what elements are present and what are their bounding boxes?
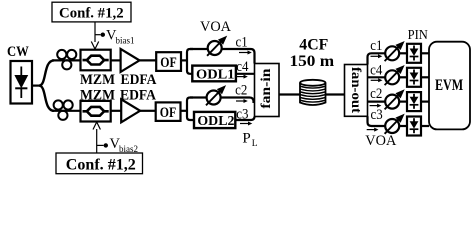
arrow c4 right [371, 78, 383, 82]
arrow c3 left [240, 122, 252, 126]
svg-text:EDFA: EDFA [120, 87, 156, 103]
svg-text:OF: OF [160, 55, 177, 71]
svg-text:EVM: EVM [435, 77, 463, 94]
arrow c2 left [236, 99, 248, 103]
svg-text:c2: c2 [370, 86, 382, 102]
svg-text:Conf. #1,2: Conf. #1,2 [66, 156, 136, 173]
svg-text:MZM: MZM [80, 87, 115, 103]
svg-text:fan-out: fan-out [348, 67, 363, 113]
amplifier EDFA top [121, 49, 140, 72]
svg-text:bias1: bias1 [116, 36, 135, 46]
wire fan-out to VOA c4 right [368, 76, 386, 78]
controller Conf box top [52, 2, 131, 22]
filter OF top [156, 52, 181, 71]
arrow c1 left [239, 51, 252, 55]
bias line V_bias2 [93, 122, 108, 153]
splitter brace bottom arm [39, 86, 54, 111]
wire VOA to fan-in c1 [222, 49, 255, 64]
attenuator VOA c2-left [206, 86, 225, 105]
wire CW to splitter [32, 84, 39, 86]
wire ODL1 to fan-in c4 [236, 73, 255, 75]
svg-text:PIN: PIN [408, 28, 428, 43]
photodiode PIN c3 [407, 117, 421, 136]
svg-text:c1: c1 [370, 38, 382, 54]
wire MZM to EDFA bottom [111, 110, 122, 112]
delay ODL1 [192, 66, 236, 83]
controller Conf box bottom [56, 153, 143, 174]
wire EDFA to OF bottom [140, 110, 156, 112]
svg-text:ODL2: ODL2 [197, 114, 234, 129]
attenuator VOA c1 right [385, 42, 404, 61]
photodiode PIN c4 [407, 68, 421, 87]
svg-text:bias2: bias2 [119, 144, 138, 154]
svg-text:OF: OF [160, 105, 177, 121]
arrow c3 right [367, 128, 379, 132]
wire PIN to EVM c4 [421, 76, 429, 78]
wire VOA to PIN c4 [399, 76, 407, 78]
wire VOA to PIN c3 [399, 125, 407, 127]
attenuator VOA c4 right [385, 66, 404, 85]
wire VOA to PIN c1 [399, 52, 407, 54]
svg-text:VOA: VOA [200, 19, 232, 35]
label P_L [242, 131, 257, 149]
svg-text:VOA: VOA [365, 133, 397, 149]
svg-text:c4: c4 [236, 59, 249, 75]
wire ODL2 to fan-in c3 [235, 117, 254, 121]
analyzer EVM box [429, 42, 470, 130]
svg-text:4CF: 4CF [299, 36, 328, 53]
wire PIN to EVM c1 [421, 52, 429, 54]
photodiode PIN c2 [407, 92, 421, 111]
svg-text:c3: c3 [371, 107, 383, 123]
wire fan-out to VOA c2 right [368, 100, 386, 102]
wire VOA to fan-in c2 [221, 98, 254, 104]
split bottom branch [187, 98, 194, 121]
photodiode PIN c1 [407, 44, 421, 63]
svg-text:c2: c2 [235, 82, 247, 98]
split top branch [187, 49, 193, 74]
label V_bias2 [110, 136, 139, 154]
svg-text:fan-in: fan-in [259, 68, 274, 108]
fan-out box [345, 65, 368, 117]
wire OF to split top [181, 59, 187, 61]
wire fan-in to spool [279, 93, 300, 95]
svg-text:150 m: 150 m [290, 53, 335, 70]
attenuator VOA c2 right [385, 90, 404, 109]
label V_bias1 [106, 28, 135, 46]
svg-text:ODL1: ODL1 [196, 68, 235, 83]
svg-text:EDFA: EDFA [121, 72, 157, 88]
wire OF to split bottom [181, 110, 188, 112]
svg-text:c3: c3 [236, 107, 248, 123]
arrow c1 right [371, 54, 383, 58]
svg-text:CW: CW [7, 44, 29, 60]
attenuator VOA c3 right [385, 115, 404, 134]
wire fan-out to VOA c3 right [368, 116, 386, 126]
wire MZM to EDFA top [111, 59, 121, 61]
wire spool to fan-out [326, 93, 345, 95]
wire split to VOA c2 [190, 96, 207, 98]
svg-text:c4: c4 [370, 62, 383, 78]
wire PIN to EVM c2 [421, 100, 429, 102]
wire bottom branch to MZM [52, 110, 81, 112]
wire top branch to MZM [52, 59, 81, 61]
fiber spool 4CF [300, 80, 326, 105]
svg-text:MZM: MZM [80, 72, 115, 88]
arrow c2 right [370, 104, 382, 108]
modulator MZM bottom box [81, 101, 111, 122]
arrow c4 left [237, 75, 248, 79]
modulator MZM top box [81, 50, 111, 71]
wire fan-out to VOA c1 right [368, 53, 386, 64]
splitter brace top arm [39, 60, 54, 85]
polarization controller top [57, 50, 76, 70]
laser CW box [11, 61, 33, 104]
amplifier EDFA bottom [121, 99, 140, 122]
svg-text:L: L [252, 139, 258, 149]
svg-text:c1: c1 [236, 34, 248, 50]
bias line V_bias1 [91, 22, 105, 49]
wire VOA to PIN c2 [399, 100, 407, 102]
wire split to VOA c1 [190, 48, 208, 50]
attenuator VOA c1-left [207, 37, 226, 56]
polarization controller bottom [54, 100, 73, 120]
svg-text:P: P [242, 131, 250, 147]
wire EDFA to OF top [140, 59, 157, 61]
filter OF bottom [156, 102, 181, 121]
fan-in box [255, 64, 280, 117]
svg-text:Conf. #1,2: Conf. #1,2 [59, 6, 124, 22]
delay ODL2 [194, 112, 235, 129]
wire PIN to EVM c3 [421, 125, 429, 127]
